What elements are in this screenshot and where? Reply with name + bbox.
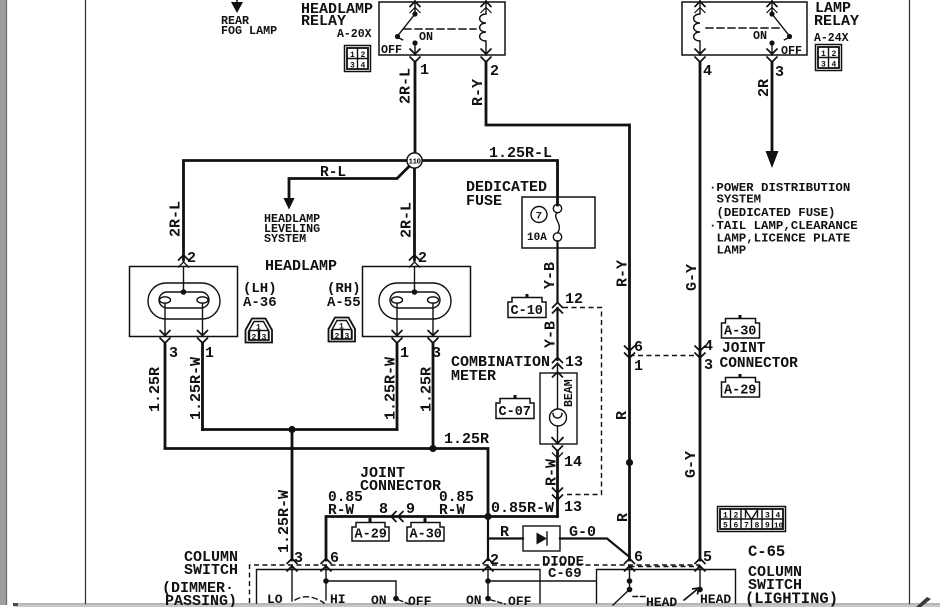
connector A-30 left bbox=[407, 518, 444, 543]
wire R-W below beam bbox=[556, 452, 559, 517]
column switch lighting box bbox=[597, 570, 736, 604]
svg-text:6: 6 bbox=[634, 549, 643, 566]
bottom-right corner pen mark bbox=[916, 597, 931, 607]
arrowhead headlamp leveling bbox=[283, 198, 294, 210]
svg-text:FOG LAMP: FOG LAMP bbox=[221, 24, 277, 38]
svg-text:3: 3 bbox=[350, 62, 355, 71]
wire main horizontal at y160 left to LH headlamp bbox=[184, 161, 408, 261]
svg-text:2R-L: 2R-L bbox=[398, 68, 415, 104]
dimmer switch internals LO HI bbox=[292, 566, 596, 604]
svg-text:R-Y: R-Y bbox=[615, 260, 632, 287]
svg-text:1.25R-W: 1.25R-W bbox=[188, 357, 205, 420]
svg-text:R: R bbox=[614, 411, 631, 420]
page bottom gray scanner strip bbox=[14, 604, 940, 607]
svg-text:1.25R: 1.25R bbox=[147, 367, 164, 412]
label HEADLAMP LEVELING SYSTEM bbox=[264, 212, 320, 246]
label COLUMN SWITCH dimmer bbox=[162, 549, 238, 607]
svg-text:2: 2 bbox=[490, 63, 499, 80]
junction dot 1.25R-W bus bbox=[288, 426, 295, 433]
relay A-20X box bbox=[379, 2, 505, 55]
svg-text:1: 1 bbox=[420, 62, 429, 79]
lighting switch internals HEAD bbox=[613, 566, 703, 605]
svg-text:OFF: OFF bbox=[781, 44, 802, 58]
connector icon A-36 triangle bbox=[246, 319, 273, 343]
pin chevrons pin 13 bottom bbox=[552, 488, 563, 501]
svg-text:13: 13 bbox=[565, 354, 583, 371]
labels LO HI ON OFF ON OFF bbox=[267, 592, 532, 607]
svg-text:R-W: R-W bbox=[328, 503, 354, 519]
wire 2R-L junction down to RH headlamp bbox=[413, 168, 416, 260]
diode R branch wire bbox=[488, 537, 523, 539]
svg-text:2: 2 bbox=[187, 250, 196, 267]
wire 1.25R-W down to column switch pin3 bbox=[291, 430, 294, 561]
headlamp RH bulb bbox=[379, 267, 451, 336]
wire main horizontal junction to fuse corner bbox=[422, 161, 558, 206]
column switch dashed connector boundary bbox=[250, 565, 701, 603]
svg-text:110: 110 bbox=[408, 158, 421, 166]
svg-text:ON: ON bbox=[753, 29, 767, 43]
svg-text:5: 5 bbox=[703, 549, 712, 566]
svg-text:2R: 2R bbox=[756, 79, 773, 97]
wire R down to column switch lighting bbox=[628, 352, 631, 560]
svg-text:7: 7 bbox=[744, 522, 749, 531]
pin chevrons relay A-20X bottom pins 1 2 bbox=[410, 49, 492, 63]
svg-text:R-Y: R-Y bbox=[470, 79, 487, 106]
junction dot on R wire bbox=[626, 459, 633, 466]
wire 1.25R-W LH pin1 down bbox=[201, 343, 204, 430]
svg-text:(LIGHTING): (LIGHTING) bbox=[745, 590, 838, 607]
wire 2R relay A-24X pin3 down with arrow bbox=[771, 62, 774, 153]
svg-text:C-69: C-69 bbox=[548, 566, 582, 582]
connector icon C-65 bbox=[718, 507, 786, 532]
svg-text:13: 13 bbox=[564, 499, 582, 516]
relay A-20X switch bbox=[395, 0, 476, 55]
label C-65 COLUMN SWITCH LIGHTING bbox=[745, 543, 838, 607]
svg-text:R: R bbox=[615, 513, 632, 522]
relay A-24X box bbox=[682, 2, 807, 55]
svg-text:12: 12 bbox=[565, 291, 583, 308]
svg-text:4: 4 bbox=[776, 512, 781, 521]
svg-text:C-65: C-65 bbox=[748, 543, 785, 561]
svg-text:C-10: C-10 bbox=[511, 304, 543, 319]
svg-text:1.25R-W: 1.25R-W bbox=[383, 357, 400, 420]
svg-text:CONNECTOR: CONNECTOR bbox=[360, 478, 441, 495]
pin chevrons RH top pin 2 bbox=[409, 255, 420, 268]
arrowhead power distribution bbox=[766, 151, 779, 168]
labels HEAD HEAD bbox=[646, 592, 731, 607]
label HEADLAMP RELAY A-20X bbox=[301, 1, 373, 41]
connector A-30 right bbox=[722, 315, 760, 340]
svg-text:METER: METER bbox=[451, 368, 496, 385]
svg-text:3: 3 bbox=[169, 345, 178, 362]
pin chevrons joint connector pins 4/3 bbox=[695, 346, 706, 359]
diode G-0 wire to pin 6 bbox=[560, 539, 630, 558]
svg-text:A-29: A-29 bbox=[355, 528, 387, 543]
svg-text:2R-L: 2R-L bbox=[168, 201, 185, 237]
svg-text:A-20X: A-20X bbox=[337, 28, 372, 41]
wire joint connector bus y516 bbox=[326, 517, 488, 561]
svg-text:Y-B: Y-B bbox=[543, 321, 560, 348]
wire Y-B to combination meter bbox=[556, 308, 558, 360]
svg-text:LO: LO bbox=[267, 592, 283, 607]
svg-text:BEAM: BEAM bbox=[563, 379, 576, 407]
svg-text:1: 1 bbox=[634, 358, 643, 375]
pin chevrons LH bottom pins 3 1 bbox=[160, 330, 209, 343]
svg-text:PASSING): PASSING) bbox=[165, 593, 237, 607]
svg-text:10: 10 bbox=[774, 523, 784, 531]
svg-text:3: 3 bbox=[821, 61, 826, 70]
svg-text:A-24X: A-24X bbox=[814, 32, 849, 45]
svg-text:2: 2 bbox=[832, 50, 837, 59]
svg-text:9: 9 bbox=[406, 501, 415, 518]
chevrons on joint connector bus pins 8 9 bbox=[391, 511, 404, 522]
svg-text:1.25R: 1.25R bbox=[444, 431, 489, 448]
svg-text:9: 9 bbox=[765, 522, 770, 531]
svg-text:A-30: A-30 bbox=[410, 528, 442, 543]
svg-text:Y-B: Y-B bbox=[542, 262, 559, 289]
dashed link pins 6-1 to 4-3 bbox=[630, 355, 701, 357]
svg-text:10A: 10A bbox=[527, 232, 547, 244]
svg-text:A-55: A-55 bbox=[327, 295, 361, 311]
svg-text:HEAD: HEAD bbox=[700, 592, 731, 607]
svg-text:HEADLAMP: HEADLAMP bbox=[265, 258, 337, 275]
pin chevrons RH bottom pins 1 3 bbox=[392, 330, 439, 343]
junction dot 1.25R bus bbox=[429, 445, 436, 452]
beam arrow down inside box bbox=[552, 426, 564, 444]
connector C-10 bbox=[508, 294, 546, 319]
svg-text:2: 2 bbox=[734, 512, 739, 521]
wire 0.85R-W to junction bbox=[488, 515, 558, 518]
svg-text:OFF: OFF bbox=[508, 594, 532, 607]
pin chevrons pin 12 bbox=[552, 303, 563, 314]
note list power distribution bbox=[709, 181, 858, 258]
diagram right border line bbox=[909, 0, 911, 604]
svg-text:4: 4 bbox=[704, 338, 713, 355]
pin chevrons pin 13 top of meter bbox=[552, 358, 563, 370]
svg-text:3: 3 bbox=[345, 333, 350, 342]
svg-text:2R-L: 2R-L bbox=[399, 202, 416, 238]
svg-text:RELAY: RELAY bbox=[814, 13, 859, 30]
pin chevrons relay A-24X top pins bbox=[695, 2, 778, 14]
svg-text:1: 1 bbox=[205, 345, 214, 362]
svg-text:SYSTEM: SYSTEM bbox=[264, 232, 306, 246]
wire from junction down to diode and pin 2 bbox=[487, 517, 489, 561]
svg-text:ON: ON bbox=[371, 593, 387, 607]
label TAIL LAMP RELAY A-24X bbox=[814, 0, 859, 45]
svg-text:HEAD: HEAD bbox=[646, 595, 677, 607]
svg-text:1: 1 bbox=[723, 512, 728, 521]
wire R-Y down right side bbox=[628, 125, 631, 352]
wire R-Y relay pin2 down and right to x629 bbox=[486, 62, 629, 125]
pin chevron beam box border bbox=[552, 372, 563, 378]
svg-text:R: R bbox=[500, 524, 509, 541]
wire 1.25R-W bus y429 bbox=[203, 428, 398, 431]
label 0.85 R-W left pair bbox=[328, 490, 363, 519]
label 0.85 R-W right pair bbox=[439, 490, 474, 519]
svg-text:FUSE: FUSE bbox=[466, 193, 502, 210]
connector C-07 bbox=[496, 395, 534, 420]
junction dot 0.85R-W bbox=[484, 513, 491, 520]
svg-text:8: 8 bbox=[379, 501, 388, 518]
svg-text:OFF: OFF bbox=[408, 594, 432, 607]
wire R-L branch to headlamp leveling system bbox=[289, 167, 409, 201]
svg-text:6: 6 bbox=[330, 550, 339, 567]
junction connector circle 110 bbox=[407, 153, 422, 168]
svg-text:4: 4 bbox=[832, 61, 837, 70]
svg-text:2: 2 bbox=[335, 333, 340, 342]
label JOINT CONNECTOR right bbox=[720, 341, 799, 372]
svg-text:R-W: R-W bbox=[544, 459, 561, 486]
relay A-20X ON/OFF labels bbox=[381, 30, 433, 57]
wire 1.25R-W RH pin1 down bbox=[396, 343, 399, 430]
svg-text:1: 1 bbox=[350, 51, 355, 60]
svg-text:CONNECTOR: CONNECTOR bbox=[720, 356, 799, 372]
relay A-24X switch bbox=[706, 0, 792, 55]
pin chevrons lighting pins 6 5 bbox=[624, 559, 706, 572]
svg-text:2: 2 bbox=[418, 250, 427, 267]
svg-text:3: 3 bbox=[704, 357, 713, 374]
label DIODE C-69 bbox=[542, 554, 584, 582]
pin chevrons LH top pin 2 bbox=[178, 255, 189, 268]
svg-text:HI: HI bbox=[330, 592, 346, 607]
svg-text:6: 6 bbox=[634, 339, 643, 356]
connector icon A-55 triangle bbox=[329, 318, 356, 342]
svg-text:1: 1 bbox=[400, 345, 409, 362]
diode C-69 box bbox=[523, 526, 560, 551]
svg-text:1: 1 bbox=[256, 324, 261, 333]
relay A-20X coil bbox=[480, 0, 486, 55]
svg-text:4: 4 bbox=[361, 62, 366, 71]
svg-text:1: 1 bbox=[339, 323, 344, 332]
wire 1.25R RH pin3 down bbox=[432, 343, 435, 449]
svg-text:OFF: OFF bbox=[381, 43, 402, 57]
svg-text:6: 6 bbox=[734, 522, 739, 531]
svg-text:G-Y: G-Y bbox=[683, 451, 700, 478]
beam bulb bbox=[550, 409, 567, 426]
svg-text:ON: ON bbox=[466, 593, 482, 607]
wire 2R-L relay pin1 down to junction 110 bbox=[414, 62, 417, 153]
svg-text:3: 3 bbox=[262, 334, 267, 343]
label (LH) A-36 bbox=[243, 281, 277, 311]
svg-text:ON: ON bbox=[419, 30, 433, 44]
svg-text:R-L: R-L bbox=[320, 165, 346, 181]
svg-text:7: 7 bbox=[536, 211, 542, 223]
page left gray margin strip bbox=[0, 0, 6, 605]
headlamp LH box A-36 bbox=[130, 267, 238, 337]
relay A-24X ON/OFF labels bbox=[753, 29, 802, 58]
label COMBINATION METER bbox=[451, 354, 550, 385]
svg-text:4: 4 bbox=[703, 63, 712, 80]
fuse number circled 7 bbox=[531, 207, 547, 223]
pin chevrons relay A-20X top pins bbox=[410, 2, 492, 14]
pin chevrons joint connector pins 6/1 bbox=[624, 346, 635, 359]
wire 1.25R LH pin3 down bbox=[164, 343, 167, 448]
pin chevrons pin 14 below beam box bbox=[552, 446, 563, 459]
svg-text:G-0: G-0 bbox=[569, 524, 596, 541]
label JOINT CONNECTOR left bbox=[360, 465, 441, 495]
svg-text:A-30: A-30 bbox=[724, 325, 756, 340]
svg-text:LAMP: LAMP bbox=[717, 244, 747, 258]
svg-text:3: 3 bbox=[294, 550, 303, 567]
column switch dimmer box bbox=[257, 570, 541, 604]
diode symbol bbox=[537, 532, 548, 545]
svg-text:SYSTEM: SYSTEM bbox=[717, 193, 762, 207]
connector icon A-20X 1234 bbox=[345, 46, 371, 72]
label DEDICATED FUSE bbox=[466, 179, 547, 210]
svg-text:2: 2 bbox=[490, 552, 499, 569]
svg-text:JOINT: JOINT bbox=[722, 341, 766, 357]
svg-text:2: 2 bbox=[252, 334, 257, 343]
svg-text:0.85R-W: 0.85R-W bbox=[491, 500, 554, 517]
beam indicator box bbox=[540, 373, 577, 444]
pin chevrons relay A-24X bottom pins 4 3 bbox=[695, 49, 778, 63]
svg-text:R-W: R-W bbox=[439, 503, 465, 519]
label REAR FOG LAMP bbox=[221, 14, 277, 38]
svg-text:A-29: A-29 bbox=[724, 384, 756, 399]
headlamp RH box A-55 bbox=[363, 267, 471, 337]
diagram left border line bbox=[85, 0, 87, 604]
relay A-24X coil bbox=[694, 0, 700, 55]
svg-text:2: 2 bbox=[361, 51, 366, 60]
wire into beam bulb bbox=[557, 363, 559, 408]
bottom-left corner dark tick bbox=[13, 603, 18, 606]
svg-text:SWITCH: SWITCH bbox=[184, 562, 238, 579]
svg-text:3: 3 bbox=[765, 512, 770, 521]
pin chevrons column pins 3 6 2 bbox=[287, 559, 494, 572]
fuse element bbox=[553, 204, 561, 302]
svg-text:14: 14 bbox=[564, 454, 582, 471]
svg-text:3: 3 bbox=[775, 64, 784, 81]
wire 1.25R bus y448 bbox=[165, 449, 488, 517]
combination meter dashed outline bbox=[563, 308, 602, 495]
wire G-Y relay A-24X pin4 down full bbox=[699, 62, 702, 560]
dedicated fuse box bbox=[522, 197, 595, 248]
connector icon A-24X 1234 bbox=[816, 45, 842, 71]
rear fog lamp arrow bbox=[231, 0, 243, 13]
svg-text:C-07: C-07 bbox=[499, 405, 531, 420]
svg-text:1.25R-L: 1.25R-L bbox=[489, 145, 552, 162]
svg-text:G-Y: G-Y bbox=[684, 264, 701, 291]
label (RH) A-55 bbox=[327, 281, 361, 311]
svg-text:5: 5 bbox=[723, 522, 728, 531]
svg-text:1.25R-W: 1.25R-W bbox=[276, 490, 293, 553]
svg-text:8: 8 bbox=[755, 522, 760, 531]
svg-text:1.25R: 1.25R bbox=[419, 367, 436, 412]
svg-text:A-36: A-36 bbox=[243, 295, 277, 311]
connector A-29 right bbox=[722, 374, 760, 399]
svg-text:(DEDICATED FUSE): (DEDICATED FUSE) bbox=[717, 206, 836, 220]
headlamp LH bulb bbox=[148, 267, 220, 336]
svg-text:1: 1 bbox=[821, 50, 826, 59]
dashed link pins 6-5 bbox=[630, 566, 701, 568]
connector A-29 left bbox=[352, 518, 389, 543]
